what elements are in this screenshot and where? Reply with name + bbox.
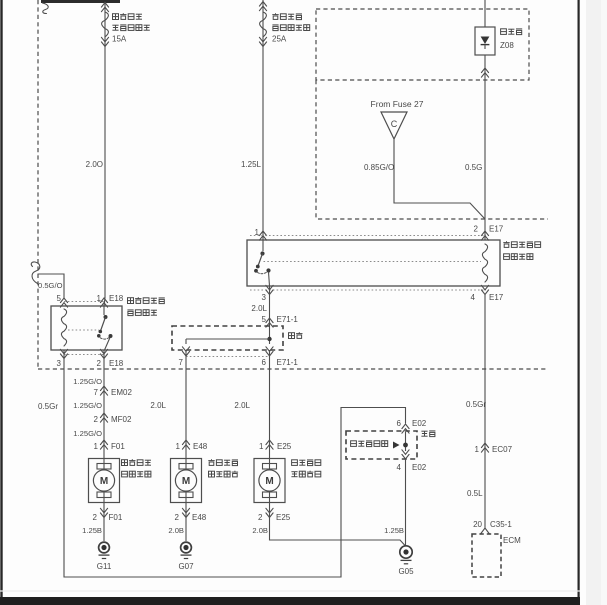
svg-text:1: 1: [94, 442, 99, 451]
chevrons at dashed border crossing: [481, 68, 488, 77]
svg-text:1: 1: [259, 442, 264, 451]
relay E17 main condenser fan relay box: [247, 240, 500, 286]
connector F01 pin2 chevrons: [100, 508, 107, 517]
svg-text:From Fuse 27: From Fuse 27: [371, 99, 424, 109]
fuse F2 element 主冷凝器风扇保险丝 25A: [260, 12, 267, 37]
svg-text:1.25L: 1.25L: [241, 160, 262, 169]
wire fuse2 to relay E17 pin1: [262, 0, 264, 240]
svg-text:4: 4: [471, 293, 476, 302]
connector EM02 chevrons: [100, 386, 107, 395]
label pin 2 E25: [258, 513, 291, 522]
svg-text:E71-1: E71-1: [277, 315, 299, 324]
svg-text:2.0O: 2.0O: [86, 160, 103, 169]
svg-text:0.5G: 0.5G: [465, 163, 482, 172]
ground G05: [398, 546, 414, 576]
triangle connector C from fuse 27: [381, 112, 407, 139]
svg-text:E17: E17: [489, 225, 504, 234]
svg-text:0.5L: 0.5L: [467, 489, 483, 498]
junction E02 internal wire and dot: [403, 432, 408, 451]
svg-text:2: 2: [175, 513, 180, 522]
label fuse1 name line1: [113, 13, 142, 19]
svg-text:E48: E48: [192, 513, 207, 522]
svg-text:6: 6: [397, 419, 402, 428]
label pin 5 E71-1: [262, 315, 299, 324]
label wire gauge 1.25L: [241, 160, 262, 169]
dotted connector row below relay E18: [64, 354, 104, 356]
label pin 4 E17: [471, 293, 504, 302]
svg-text:1: 1: [176, 442, 181, 451]
right page-edge shadow: [586, 0, 607, 605]
connector E48 pin2 chevrons: [182, 508, 189, 517]
label pin 2 E17: [474, 225, 504, 234]
svg-text:2.0B: 2.0B: [252, 526, 268, 535]
dashed region border bottom horizontal: [38, 368, 548, 370]
diode Z08 symbol: [481, 37, 490, 50]
svg-text:M: M: [182, 476, 190, 487]
label pin 5 E18: [57, 294, 62, 303]
wire E18 pin2 to motor1: [103, 350, 105, 459]
label pin 3 E18: [57, 359, 62, 368]
svg-text:E48: E48: [193, 442, 208, 451]
svg-text:EM02: EM02: [111, 388, 132, 397]
svg-text:M: M: [265, 476, 273, 487]
right page border line: [577, 0, 579, 598]
label wire gauge 0.85G/O: [364, 163, 394, 172]
svg-text:G07: G07: [178, 562, 194, 571]
svg-text:2: 2: [93, 513, 98, 522]
relay E17 switch: [254, 240, 271, 286]
label wire gauge 1.25G/O (b): [73, 401, 102, 410]
fuse F2 bottom chevrons: [259, 37, 266, 46]
wire E17 pin4 to ECM: [484, 295, 486, 530]
label motor1 name line2: [122, 471, 151, 477]
fuse F1 top chevrons: [101, 3, 108, 12]
svg-text:2.0L: 2.0L: [150, 401, 166, 410]
svg-text:F01: F01: [109, 513, 123, 522]
svg-text:G11: G11: [97, 562, 112, 571]
junction E71-1 pin5 chevrons: [266, 318, 273, 327]
junction connector E71-1 dashed box: [172, 326, 283, 350]
relay E17 pin4 chevrons: [481, 285, 488, 294]
label wire gauge 2.0L (pin3): [251, 304, 267, 313]
svg-text:E02: E02: [412, 463, 427, 472]
left page border line: [0, 0, 2, 598]
svg-text:C: C: [391, 119, 398, 129]
label wire gauge 1.25G/O (a): [73, 377, 102, 386]
label pin 7 EM02: [94, 388, 133, 397]
label pin 1 E17: [255, 228, 260, 237]
bottom page border band: [0, 597, 580, 605]
svg-text:1.25G/O: 1.25G/O: [73, 377, 102, 386]
relay E17 pin2 chevrons: [481, 231, 488, 240]
motor M1 bottom wire: [103, 503, 105, 542]
label pin 2 E48: [175, 513, 207, 522]
label wire gauge 2.0L (motor2): [150, 401, 166, 410]
fuse F1 bottom chevrons: [101, 37, 108, 46]
label relay E17 name line1: [503, 241, 540, 247]
junction E71-1 pin6 chevrons: [266, 347, 273, 356]
relay E18 internal dotted actuation line: [68, 329, 99, 331]
svg-text:E71-1: E71-1: [277, 358, 299, 367]
svg-text:2: 2: [97, 359, 102, 368]
svg-text:E25: E25: [276, 513, 291, 522]
svg-text:E02: E02: [412, 419, 427, 428]
svg-text:E25: E25: [277, 442, 292, 451]
relay E18 pin3 chevrons: [60, 349, 67, 358]
diode Z08 box: [475, 27, 495, 55]
label pin 1 E48: [176, 442, 208, 451]
wire fuse1 to relay E18 pin1: [104, 3, 105, 306]
label fuse2 name line2: [272, 25, 309, 31]
label 见搭铁分配 see ground distribution: [351, 441, 388, 447]
svg-text:2.0L: 2.0L: [251, 304, 267, 313]
svg-text:2: 2: [94, 415, 99, 424]
svg-text:C35-1: C35-1: [490, 520, 512, 529]
fuse F1 element 副冷凝器风扇保险丝 15A: [102, 12, 109, 37]
label wire gauge 2.0O: [86, 160, 103, 169]
label wire gauge 2.0B (motor3): [252, 526, 268, 535]
connector EC07 chevrons: [481, 443, 488, 452]
connector C35-1 pin arrow: [481, 528, 490, 534]
label pin 4 E02: [397, 463, 427, 472]
junction E71-1 internal wiring: [186, 327, 272, 344]
junction connector E02 dashed box: [346, 431, 417, 459]
connector E25 pin2 chevrons: [266, 508, 273, 517]
svg-text:1.25G/O: 1.25G/O: [73, 429, 102, 438]
wire diode to relay E17 pin2: [484, 55, 486, 240]
wire E71-1 pin7 to motor2: [185, 350, 187, 459]
label motor1 name line1: [122, 459, 151, 465]
motor M1 aux condenser fan motor: [89, 459, 120, 503]
label motor3 name line2: [291, 471, 320, 477]
svg-text:25A: 25A: [272, 35, 287, 44]
label wire gauge 0.5Gr (ECM): [466, 400, 486, 409]
label wire gauge 0.5L: [467, 489, 483, 498]
ground G11: [97, 542, 112, 571]
dotted connector row below relay E17: [250, 289, 486, 291]
svg-text:3: 3: [57, 359, 62, 368]
label pin 6 E71-1: [262, 358, 299, 367]
power bus bar: [41, 0, 120, 3]
wire curl at 0.5G/O stub: [31, 262, 40, 284]
label pin 1 E25: [259, 442, 292, 451]
svg-text:7: 7: [94, 388, 99, 397]
wire E02 pin4 to ground G05: [405, 459, 407, 545]
junction E02 pin6 chevrons: [402, 424, 409, 433]
wire E71-1 pin6 to motor3: [269, 350, 271, 459]
label fuse1 name line2: [112, 25, 149, 31]
arrow to junction dot: [393, 442, 400, 449]
svg-text:Z08: Z08: [500, 41, 514, 50]
label pin 1 E18: [97, 294, 124, 303]
label wire gauge 0.5G: [465, 163, 482, 172]
relay E18 pin2 chevrons: [100, 349, 107, 358]
wire curl under bus bar: [43, 3, 49, 14]
svg-text:3: 3: [262, 293, 267, 302]
label pin 2 E18: [97, 359, 124, 368]
svg-text:2: 2: [474, 225, 479, 234]
relay E17 internal dotted actuation line: [264, 261, 482, 263]
label fuse2 name line1: [272, 13, 302, 19]
relay E18 switch: [97, 306, 113, 350]
label From Fuse 27: [371, 99, 424, 109]
dashed region border mid horizontal: [318, 218, 548, 220]
label fuse1 rating 15A: [112, 35, 127, 44]
svg-text:1.25B: 1.25B: [384, 526, 404, 535]
dotted connector row below E71-1: [186, 356, 270, 358]
svg-text:4: 4: [397, 463, 402, 472]
svg-text:0.5Gr: 0.5Gr: [38, 402, 58, 411]
svg-text:M: M: [100, 476, 108, 487]
svg-text:20: 20: [473, 520, 482, 529]
label relay E18 name line1: [128, 297, 165, 303]
relay E17 pin3 chevrons: [266, 285, 273, 294]
label wire gauge 0.5Gr: [38, 402, 58, 411]
label wire gauge 1.25G/O (c): [73, 429, 102, 438]
label ECM: [503, 536, 521, 545]
junction E02 pin4 chevrons: [402, 450, 409, 459]
dashed region border left vertical: [37, 0, 39, 369]
dashed box around diode Z08: [316, 9, 529, 80]
svg-text:0.85G/O: 0.85G/O: [364, 163, 394, 172]
motor M3 bottom wire to ground run: [270, 503, 406, 547]
svg-text:0.5G/O: 0.5G/O: [38, 281, 63, 290]
wire top to diode Z08: [484, 0, 486, 27]
label pin 20 C35-1: [473, 520, 512, 529]
svg-text:2: 2: [258, 513, 263, 522]
svg-text:7: 7: [179, 358, 184, 367]
svg-text:E18: E18: [109, 359, 124, 368]
svg-text:E18: E18: [109, 294, 124, 303]
relay E18 aux condenser fan relay box: [51, 306, 122, 350]
fuse F2 top chevrons: [259, 2, 266, 11]
junction E71-1 pin7 chevrons: [182, 347, 189, 356]
ECM dashed box: [472, 534, 501, 577]
relay E18 coil: [61, 309, 66, 346]
label motor2 name line2: [209, 471, 239, 477]
connector E25 pin1 chevrons: [266, 440, 273, 449]
label motor3 name line1: [292, 460, 321, 466]
label wire gauge 2.0L (motor3): [234, 401, 250, 410]
motor M3 left condenser fan motor: [254, 459, 285, 503]
label relay E18 name line2: [127, 310, 157, 316]
wire E18 pin3 ground loop: [64, 350, 406, 577]
label pin 7 E71-1: [179, 358, 184, 367]
label fuse2 rating 25A: [272, 35, 287, 44]
label pin 3 E17: [262, 293, 267, 302]
ground G07: [178, 542, 194, 571]
svg-text:1.25B: 1.25B: [82, 526, 102, 535]
relay E18 pin1 chevrons: [100, 298, 107, 307]
dashed region border short vertical: [315, 80, 317, 219]
svg-text:15A: 15A: [112, 35, 127, 44]
svg-text:0.5Gr: 0.5Gr: [466, 400, 486, 409]
relay E17 pin1 chevrons: [259, 231, 266, 240]
bottom light scan line: [0, 590, 580, 592]
label pin 2 F01: [93, 513, 123, 522]
svg-text:E17: E17: [489, 293, 504, 302]
label wire gauge 1.25B: [82, 526, 102, 535]
svg-text:G05: G05: [398, 567, 414, 576]
dotted connector row above relay E18: [64, 301, 104, 303]
svg-text:1: 1: [475, 445, 480, 454]
label relay E17 name line2: [504, 254, 533, 260]
svg-text:F01: F01: [111, 442, 125, 451]
wire E17 pin3 to junction E71-1 pin5: [269, 286, 271, 327]
label 接头 connector: [289, 332, 303, 338]
svg-text:MF02: MF02: [111, 415, 132, 424]
svg-text:2.0L: 2.0L: [234, 401, 250, 410]
svg-text:1.25G/O: 1.25G/O: [73, 401, 102, 410]
motor M2 right condenser fan motor: [171, 459, 202, 503]
label pin 6 E02: [397, 419, 427, 428]
label pin 1 F01: [94, 442, 126, 451]
label pin 1 EC07: [475, 445, 513, 454]
label wire gauge 2.0B (motor2): [168, 526, 184, 535]
connector MF02 chevrons: [100, 413, 107, 422]
svg-text:EC07: EC07: [492, 445, 513, 454]
svg-text:6: 6: [262, 358, 267, 367]
label pin 2 MF02: [94, 415, 132, 424]
label Z08: [500, 41, 514, 50]
label 二极管: [501, 29, 523, 35]
dotted connector row above relay E17: [250, 235, 486, 237]
label 接头 connector (E02): [421, 431, 435, 437]
connector F01 pin1 chevrons: [100, 440, 107, 449]
relay E17 coil: [482, 244, 487, 282]
svg-text:ECM: ECM: [503, 536, 521, 545]
label wire gauge 1.25B (G05): [384, 526, 404, 535]
relay E18 pin5 chevrons: [60, 298, 67, 307]
label wire gauge 0.5G/O: [38, 281, 63, 290]
svg-text:2.0B: 2.0B: [168, 526, 184, 535]
connector E48 pin1 chevrons: [182, 440, 189, 449]
label motor2 name line1: [208, 459, 238, 465]
motor M2 bottom wire: [185, 503, 187, 542]
wire from triangle C to relay E17 pin2: [394, 139, 485, 219]
wire 0.5G/O stub into relay E18 pin5: [38, 274, 64, 298]
